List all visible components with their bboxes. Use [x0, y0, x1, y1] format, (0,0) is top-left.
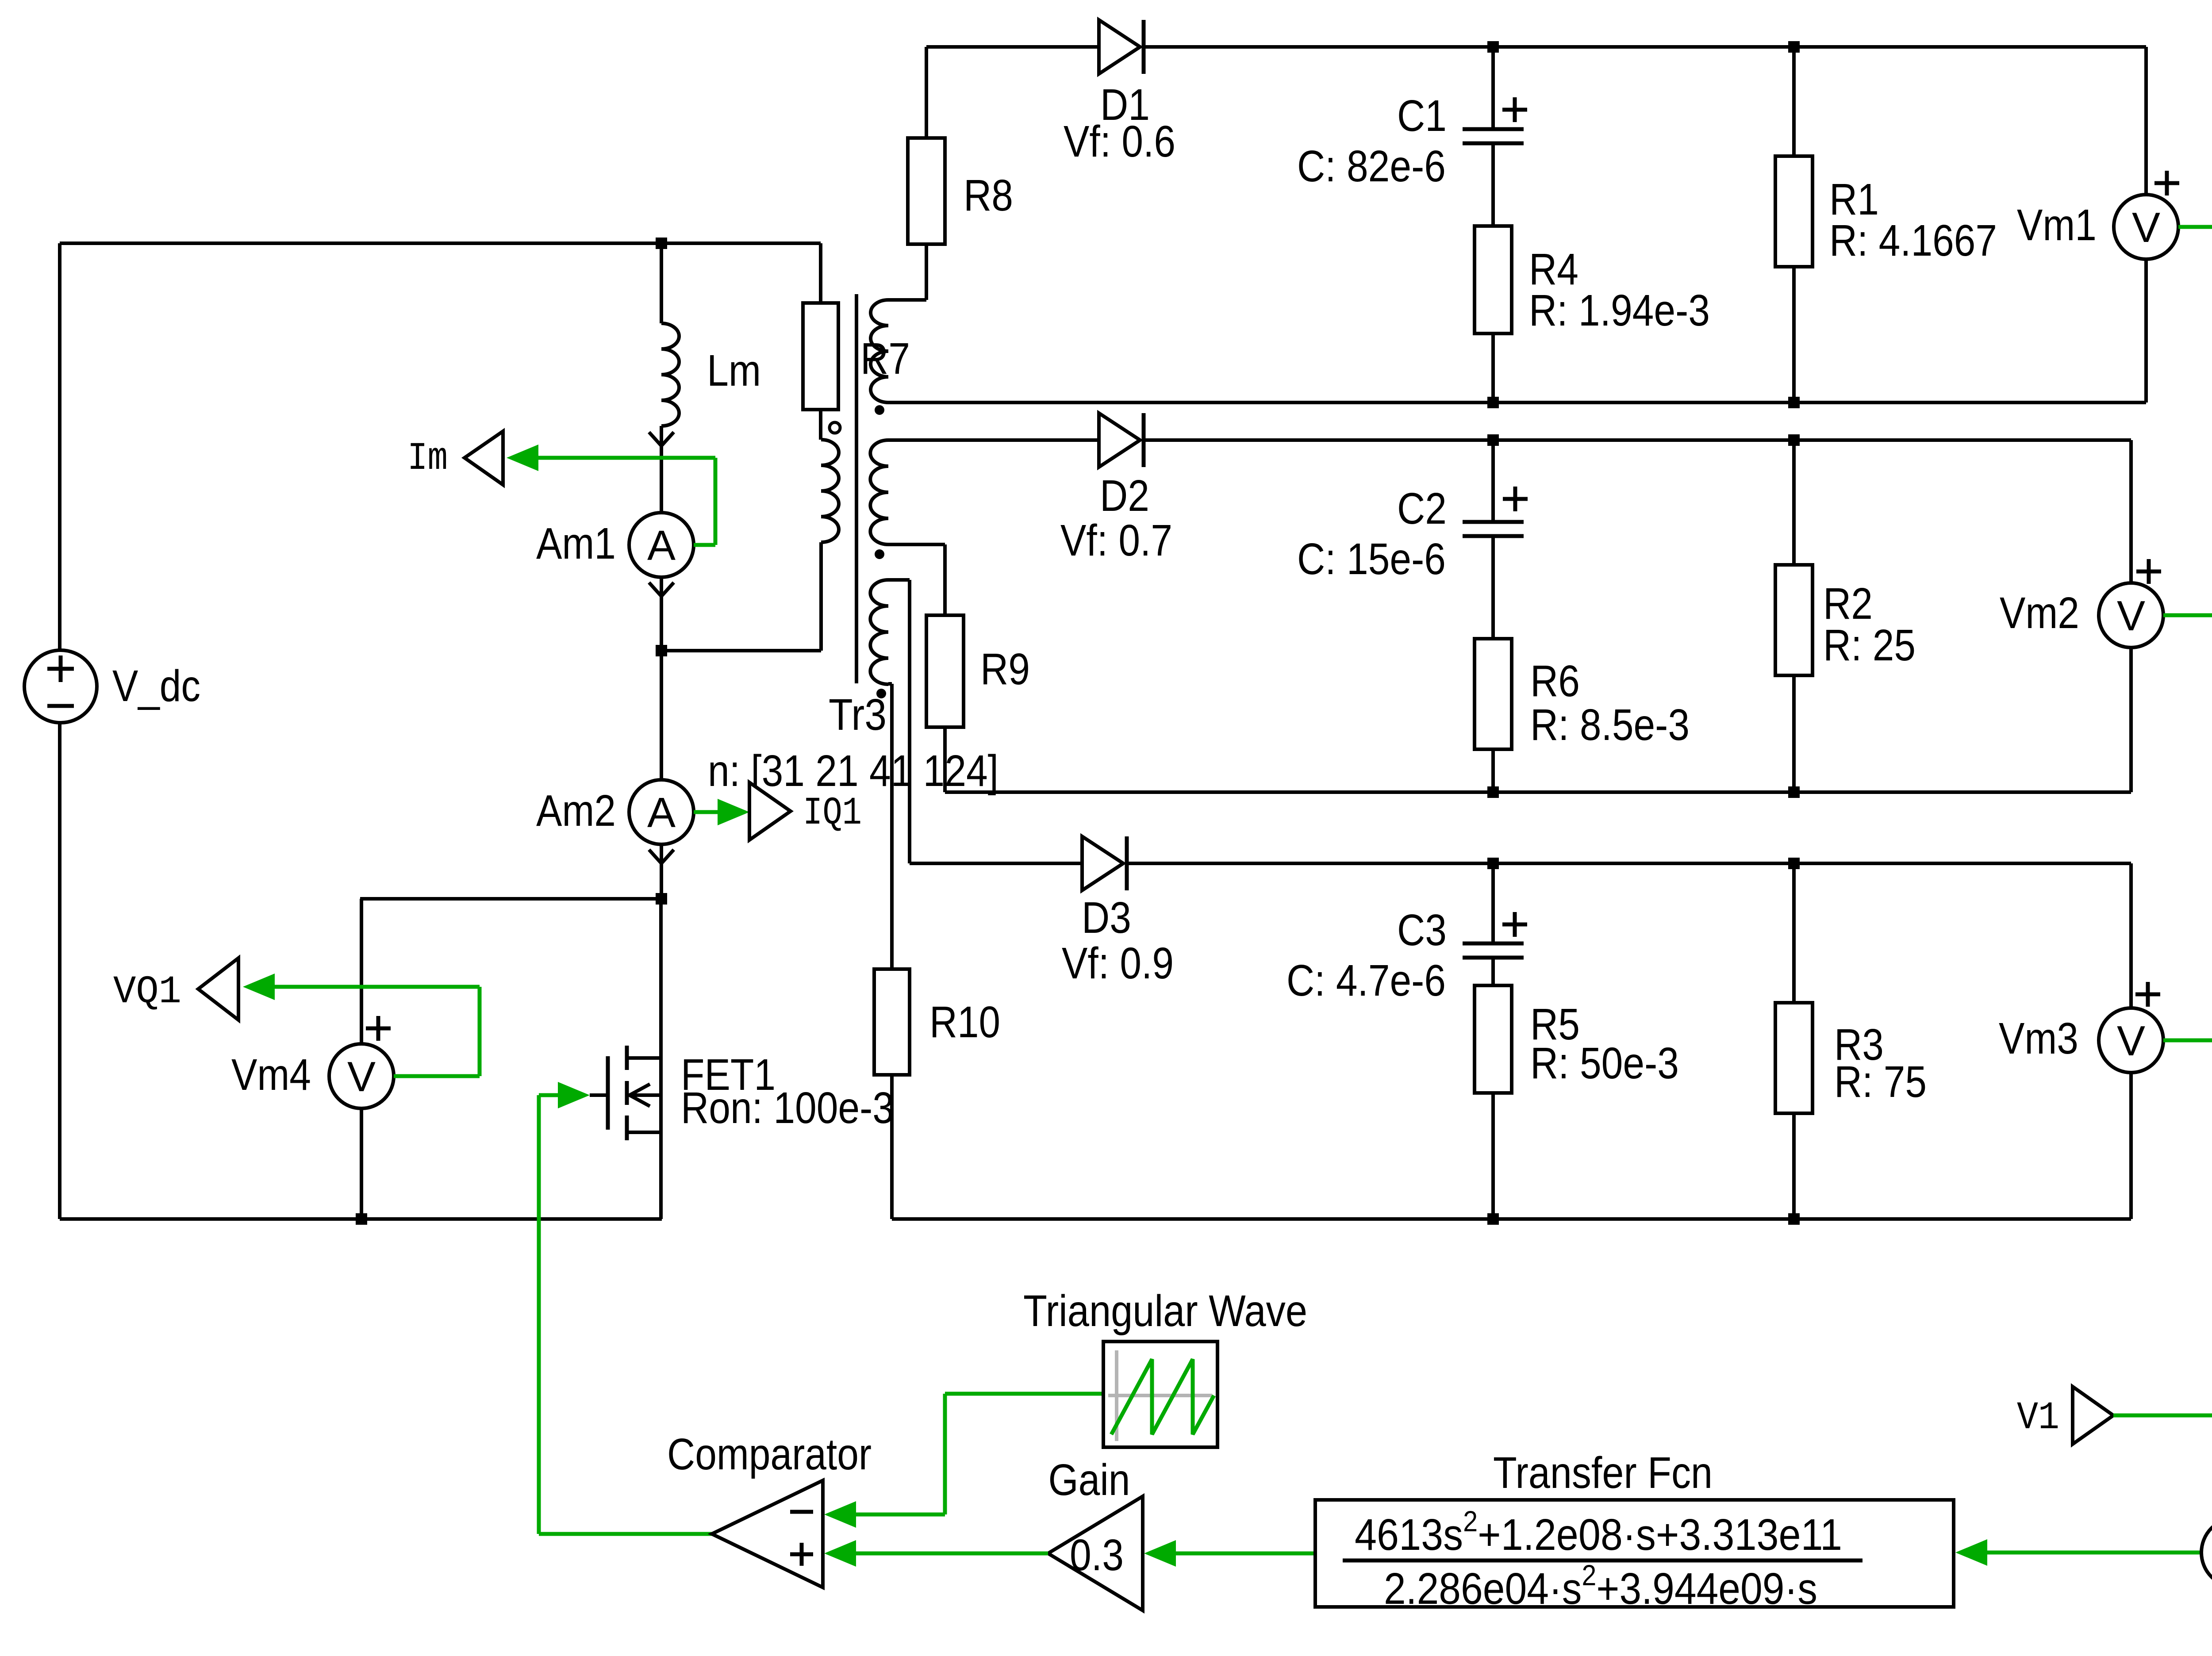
capacitor C1	[1491, 47, 1495, 129]
signal wire Am1 to Im	[535, 458, 715, 545]
wire FET source to rail	[659, 1132, 663, 1219]
wire row2 right drop	[2129, 440, 2133, 583]
node junction C3 top	[1487, 858, 1499, 869]
svg-text:R: 75: R: 75	[1834, 1057, 1927, 1107]
transistor FET1	[606, 1056, 610, 1130]
svg-text:V: V	[2132, 204, 2160, 251]
svg-text:A: A	[647, 789, 676, 836]
secondary 1 polarity dot	[875, 405, 884, 415]
resistor R5	[1475, 985, 1512, 1093]
wire left rail	[58, 243, 61, 650]
resistor R2	[1792, 440, 1796, 565]
node junction FET drain tap	[656, 893, 667, 905]
svg-text:R: 8.5e-3: R: 8.5e-3	[1530, 700, 1690, 750]
wire Vm4 to bottom rail	[360, 1108, 363, 1219]
signal wire Am2 to IQ1	[694, 810, 721, 814]
svg-text:0.3: 0.3	[1070, 1530, 1124, 1580]
wire row1 top rail left	[926, 45, 1099, 49]
svg-text:D2: D2	[1100, 471, 1149, 521]
resistor R1	[1792, 47, 1796, 156]
node junction R1 top	[1788, 41, 1800, 53]
node junction R3 bottom	[1788, 1213, 1800, 1225]
resistor R10	[874, 969, 910, 1075]
node junction C2 top	[1487, 434, 1499, 446]
signal wire Vm1 to V1	[2178, 225, 2212, 229]
wire triangular wave to comparator	[854, 1394, 1103, 1514]
comparator minus input arrow	[824, 1501, 856, 1528]
resistor R9	[926, 615, 964, 727]
transfer fcn block	[1315, 1500, 1954, 1607]
voltmeter Vm2	[2099, 583, 2163, 648]
svg-text:C: 15e-6: C: 15e-6	[1297, 534, 1446, 584]
wire junction down to FET	[659, 899, 663, 1058]
svg-text:4613s2+1.2e08·s+3.313e11: 4613s2+1.2e08·s+3.313e11	[1355, 1505, 1842, 1560]
comparator plus input arrow	[824, 1540, 856, 1567]
wire row3 right drop	[2129, 863, 2133, 1008]
svg-text:Vm2: Vm2	[2000, 588, 2079, 638]
svg-text:Tr3: Tr3	[829, 690, 887, 740]
svg-text:2.286e04·s2+3.944e09·s: 2.286e04·s2+3.944e09·s	[1384, 1559, 1817, 1614]
wire Vm1 bottom	[2144, 259, 2148, 402]
node junction top (Lm tap)	[656, 238, 667, 249]
wire secondary1 top to R8	[888, 244, 926, 300]
wire gain to comparator plus	[854, 1552, 1048, 1556]
resistor R7	[819, 243, 822, 303]
capacitor C2	[1491, 440, 1495, 522]
node junction R3 top	[1788, 858, 1800, 869]
goto tag VQ1	[198, 958, 238, 1020]
resistor R3	[1792, 863, 1796, 1003]
wire row1 right drop	[2144, 47, 2148, 195]
svg-text:Vm1: Vm1	[2017, 200, 2097, 250]
Vm2 plus sign	[2136, 559, 2161, 584]
voltmeter Vm4	[360, 899, 363, 1044]
wire row3 bottom rail	[892, 1217, 2131, 1221]
ammeter Am2	[629, 780, 694, 844]
signal wire Vm2 to V2	[2163, 613, 2212, 617]
signal wire comparator to FET gate	[539, 1095, 712, 1534]
diode D1	[1099, 20, 1140, 74]
svg-text:Vf: 0.9: Vf: 0.9	[1062, 939, 1174, 988]
svg-text:C: 4.7e-6: C: 4.7e-6	[1286, 956, 1446, 1005]
gate lead	[590, 1093, 608, 1097]
svg-text:V: V	[347, 1053, 376, 1100]
svg-text:Vm4: Vm4	[231, 1050, 311, 1100]
wire top rail	[60, 241, 821, 245]
svg-text:Im: Im	[407, 437, 448, 481]
wire secondary3 bottom to R10	[888, 684, 892, 969]
signal wire Vm4 to VQ1	[272, 987, 480, 1076]
voltage source V_dc	[24, 650, 97, 723]
wire to Am2	[660, 651, 663, 780]
transformer secondary winding 1	[871, 300, 888, 402]
svg-text:V: V	[2117, 592, 2145, 640]
resistor R4	[1475, 226, 1512, 333]
wire bottom rail	[60, 1217, 662, 1221]
Lm current arrow	[649, 426, 674, 513]
transformer secondary winding 3	[870, 580, 888, 684]
Vm3 plus sign	[2135, 982, 2160, 1007]
capacitor C3	[1491, 863, 1495, 943]
node junction R6 bottom	[1487, 786, 1499, 798]
svg-text:D3: D3	[1082, 893, 1131, 943]
wire row1 bottom rail	[888, 401, 2146, 404]
wire row3 top rail right	[1129, 862, 2131, 865]
svg-text:R: 4.1667: R: 4.1667	[1829, 216, 1997, 265]
gain input arrow	[1144, 1540, 1176, 1567]
svg-text:IQ1: IQ1	[803, 792, 862, 836]
goto tag Im	[465, 431, 503, 485]
node junction R5 bottom	[1487, 1213, 1499, 1225]
wire secondary2 bottom to R9	[888, 544, 945, 615]
transformer Tr3 core	[855, 294, 858, 683]
svg-text:Vf: 0.6: Vf: 0.6	[1064, 117, 1175, 166]
svg-text:Lm: Lm	[707, 346, 761, 395]
svg-text:Am2: Am2	[536, 786, 616, 836]
svg-text:Ron: 100e-3: Ron: 100e-3	[681, 1083, 894, 1133]
svg-text:Am1: Am1	[536, 519, 616, 568]
node junction R1 bottom	[1788, 397, 1800, 408]
node junction primary bottom	[656, 645, 667, 656]
sum block	[2201, 1518, 2212, 1587]
triangular wave block	[1103, 1342, 1217, 1447]
svg-text:R10: R10	[929, 997, 1000, 1047]
svg-text:Triangular Wave: Triangular Wave	[1023, 1286, 1307, 1336]
goto tag IQ1	[749, 782, 791, 840]
node junction R4 bottom	[1487, 397, 1499, 408]
transformer secondary winding 2	[870, 440, 888, 544]
wire secondary2 top to D2	[888, 438, 1099, 442]
Vm4 plus sign	[366, 1016, 391, 1041]
wire Vm3 bottom	[2129, 1073, 2133, 1219]
resistor R6	[1475, 639, 1512, 749]
svg-text:R: 1.94e-3: R: 1.94e-3	[1529, 286, 1710, 335]
wire transfer fcn to gain	[1174, 1552, 1315, 1556]
svg-text:R9: R9	[980, 644, 1030, 694]
secondary 3 polarity dot	[876, 689, 886, 698]
svg-text:Vm3: Vm3	[1999, 1014, 2078, 1063]
wire Vm2 bottom	[2129, 648, 2133, 792]
svg-text:V1: V1	[2017, 1396, 2059, 1440]
gain block	[1048, 1496, 1143, 1610]
svg-text:V: V	[2117, 1017, 2145, 1065]
goto tag V1 bottom	[2073, 1387, 2113, 1444]
svg-text:VQ1: VQ1	[113, 970, 181, 1014]
svg-text:C2: C2	[1397, 484, 1447, 533]
svg-text:R6: R6	[1530, 656, 1580, 706]
secondary 2 polarity dot	[875, 549, 884, 559]
svg-text:A: A	[647, 522, 676, 569]
primary polarity dot	[829, 422, 840, 433]
svg-text:Gain: Gain	[1048, 1455, 1130, 1505]
wire row1 top rail right	[1145, 45, 2146, 49]
node junction R2 top	[1788, 434, 1800, 446]
voltmeter Vm1	[2114, 195, 2178, 259]
svg-text:C3: C3	[1397, 905, 1447, 955]
diode D2	[1099, 413, 1140, 467]
svg-text:Comparator: Comparator	[667, 1430, 872, 1479]
diode D3	[1082, 836, 1123, 890]
wire junction to Lm	[660, 243, 663, 323]
wire junction to primary winding bottom	[661, 649, 821, 652]
transformer primary winding	[821, 440, 839, 542]
Vm1 plus sign	[2154, 171, 2179, 195]
transfer fcn input arrow	[1955, 1539, 1987, 1566]
wire secondary3 top down to D3	[888, 580, 1082, 863]
svg-text:Transfer Fcn: Transfer Fcn	[1493, 1448, 1713, 1498]
wire below V_dc	[58, 723, 61, 1219]
signal wire V1 to sum	[2113, 1415, 2212, 1486]
comparator	[712, 1480, 823, 1587]
svg-text:C: 82e-6: C: 82e-6	[1297, 142, 1446, 191]
node junction R2 bottom	[1788, 786, 1800, 798]
Am1 direction arrow	[649, 577, 674, 651]
wire row2 top rail right	[1145, 438, 2131, 442]
svg-text:R: 25: R: 25	[1823, 621, 1916, 670]
svg-text:V_dc: V_dc	[112, 661, 200, 711]
wire row2 bottom rail	[945, 790, 2131, 794]
node junction Vm4 bottom	[356, 1213, 367, 1225]
voltmeter Vm3	[2099, 1008, 2163, 1073]
svg-text:R8: R8	[964, 171, 1013, 220]
svg-text:R: 50e-3: R: 50e-3	[1530, 1039, 1679, 1088]
wire sum to transfer fcn	[1985, 1551, 2201, 1555]
node junction C1 top	[1487, 41, 1499, 53]
wire junction to Vm4	[360, 897, 661, 901]
Am2 direction arrow	[649, 844, 674, 899]
signal wire Vm3 to V3	[2163, 1039, 2212, 1043]
svg-text:Vf: 0.7: Vf: 0.7	[1060, 516, 1172, 565]
ammeter Am1	[629, 513, 694, 577]
resistor R8	[908, 138, 945, 244]
inductor Lm	[661, 323, 679, 426]
svg-text:C1: C1	[1397, 91, 1447, 141]
